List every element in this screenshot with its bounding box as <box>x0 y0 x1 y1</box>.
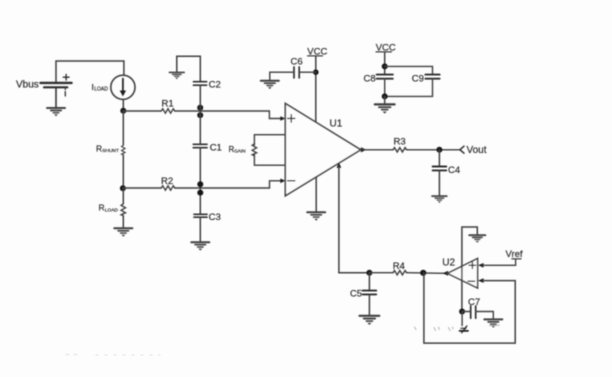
label ILOAD <box>92 82 109 93</box>
battery minus mark <box>65 89 67 97</box>
wire R1 left segment <box>123 110 161 112</box>
U2 output arrowhead <box>443 271 448 276</box>
wire REF down to C5 node <box>339 167 370 273</box>
resistor R3 <box>393 148 407 152</box>
label RSHUNT <box>96 143 119 154</box>
resistor R2 <box>161 186 175 190</box>
capacitor C2 <box>194 82 207 86</box>
svg-text:R: R <box>96 143 102 153</box>
faint smudge bottom-left <box>66 354 160 357</box>
svg-text:Vbus: Vbus <box>16 80 39 91</box>
wire C7 to ground <box>476 312 494 319</box>
faint watermark specks <box>415 325 500 330</box>
battery Vbus <box>40 83 71 107</box>
resistor RGAIN <box>252 144 256 156</box>
node C7 <box>459 309 465 315</box>
node R4/feedback <box>420 270 426 276</box>
wire VCC to C8 <box>384 52 386 74</box>
ground (C4) <box>432 196 447 203</box>
arrow into U1 plus input <box>280 116 285 121</box>
svg-text:U1: U1 <box>330 119 343 130</box>
ground (C5) <box>360 316 380 325</box>
svg-text:R1: R1 <box>162 99 174 110</box>
wire C5 node to R4 <box>369 272 393 274</box>
wire R4 to U2 output <box>407 272 444 275</box>
ground (battery) <box>47 108 65 116</box>
wire Vbus top rail <box>56 61 124 82</box>
wire C8 top to C9 top <box>385 66 433 74</box>
label RGAIN <box>229 145 246 154</box>
svg-text:LOAD: LOAD <box>105 208 119 214</box>
op-amp U1 <box>285 103 360 195</box>
node R2 left <box>120 185 126 191</box>
op-amp U2 <box>447 259 477 289</box>
resistor RSHUNT <box>122 111 126 188</box>
wire U1 to ground <box>315 177 317 211</box>
svg-text:R: R <box>99 203 105 213</box>
svg-text:C1: C1 <box>210 142 222 153</box>
label Vref <box>506 249 523 260</box>
node ILOAD bottom <box>120 108 126 114</box>
svg-text:R2: R2 <box>161 176 173 187</box>
svg-text:C5: C5 <box>350 289 362 299</box>
node Vout/C4 <box>436 147 442 153</box>
wire node to C4 <box>438 150 440 167</box>
svg-text:C4: C4 <box>448 165 460 176</box>
label VCC (C8/C9) <box>376 43 396 54</box>
capacitor C1 <box>193 144 207 147</box>
wire C2 top to ground <box>177 56 201 81</box>
Vout connector <box>460 146 464 153</box>
capacitor C5 <box>363 291 377 295</box>
current source ILOAD <box>111 75 135 99</box>
svg-text:LOAD: LOAD <box>94 87 108 93</box>
node C8 top <box>382 63 388 69</box>
U1 plus pin mark <box>288 115 295 122</box>
wire ILOAD to node <box>122 99 124 111</box>
wire C7 left lead <box>462 311 471 313</box>
node R2/C3 junction lower <box>197 190 203 196</box>
arrow into U2 plus input <box>478 263 484 268</box>
label RLOAD <box>99 203 119 214</box>
wire RGAIN bottom <box>254 155 285 165</box>
svg-text:R4: R4 <box>393 261 405 272</box>
svg-text:C9: C9 <box>412 73 424 84</box>
U1 output arrowhead <box>361 147 367 152</box>
wire R2 left segment <box>123 187 161 189</box>
ground (C2 net) <box>169 72 184 79</box>
wire R2 to U1 minus input <box>175 181 281 188</box>
svg-text:C3: C3 <box>209 212 221 223</box>
wire R1 to U1 plus input <box>175 111 281 119</box>
wire U2 minus feedback loop <box>424 273 515 343</box>
node VCC/C6 <box>313 69 319 75</box>
wire C2 to C1 <box>199 85 201 144</box>
U1 REF pin arrow <box>337 163 342 168</box>
svg-text:SHUNT: SHUNT <box>102 148 119 154</box>
resistor RLOAD <box>121 188 125 227</box>
ground (RLOAD) <box>114 228 132 236</box>
ground (U1) <box>307 212 325 220</box>
capacitor C6 <box>294 67 299 78</box>
svg-text:R3: R3 <box>394 136 406 147</box>
ground (C7) <box>484 319 502 327</box>
ground (C6 net) <box>261 81 279 89</box>
wire stub below C7 node <box>461 312 463 326</box>
node C5 <box>366 270 372 276</box>
wire C5 to ground <box>368 294 370 314</box>
wire RGAIN top <box>254 135 285 145</box>
svg-text:GAIN: GAIN <box>234 149 245 154</box>
U1 minus pin mark <box>288 180 295 182</box>
wire C8 bottom rail <box>385 79 433 97</box>
wire C4 to ground <box>438 170 440 195</box>
svg-text:C7: C7 <box>468 297 480 308</box>
U2 minus pin mark <box>468 280 475 282</box>
resistor R1 <box>161 109 175 113</box>
svg-text:U2: U2 <box>442 258 455 269</box>
svg-text:C2: C2 <box>209 79 221 90</box>
wire U2 top ground net <box>462 227 477 234</box>
wire node to C5 <box>368 273 370 291</box>
capacitor C4 <box>433 167 447 171</box>
ground (C3) <box>191 242 209 250</box>
node R1/C2 junction upper <box>197 105 203 111</box>
U2 plus pin mark <box>469 262 475 268</box>
wire C1 to C3 <box>199 148 201 215</box>
svg-text:C8: C8 <box>364 73 376 84</box>
label VCC (U1) <box>307 47 327 58</box>
node C8 bottom <box>382 93 388 99</box>
arrow into U1 minus input <box>280 179 285 184</box>
wire U2 supply through triangle to C7 node <box>461 227 463 312</box>
resistor R4 <box>393 271 407 275</box>
wire C6 to ground <box>270 72 294 80</box>
wire C3 to ground <box>199 217 201 241</box>
capacitor C8 <box>377 75 393 79</box>
capacitor C9 <box>425 75 439 79</box>
wire C8 node to ground <box>384 96 386 103</box>
ground (C8/C9) <box>375 104 395 113</box>
arrow into U2 minus input <box>478 278 484 283</box>
svg-text:C6: C6 <box>291 57 303 68</box>
wire VCC to U1 top <box>315 56 317 122</box>
wire R3 to Vout <box>407 149 460 151</box>
capacitor C3 <box>194 214 207 217</box>
scribble mark below C7 stub <box>460 326 468 333</box>
ground (U2 top) <box>469 235 485 243</box>
svg-text:Vout: Vout <box>467 145 487 156</box>
capacitor C7 <box>471 306 476 318</box>
wire Vref to U2 plus input <box>483 259 516 265</box>
wire U1 output to R3 <box>362 149 393 151</box>
wire C6 to node <box>299 71 316 73</box>
node R1/C2 junction lower <box>197 112 203 118</box>
node R2/C3 junction upper <box>197 181 203 187</box>
battery plus mark <box>63 74 69 80</box>
